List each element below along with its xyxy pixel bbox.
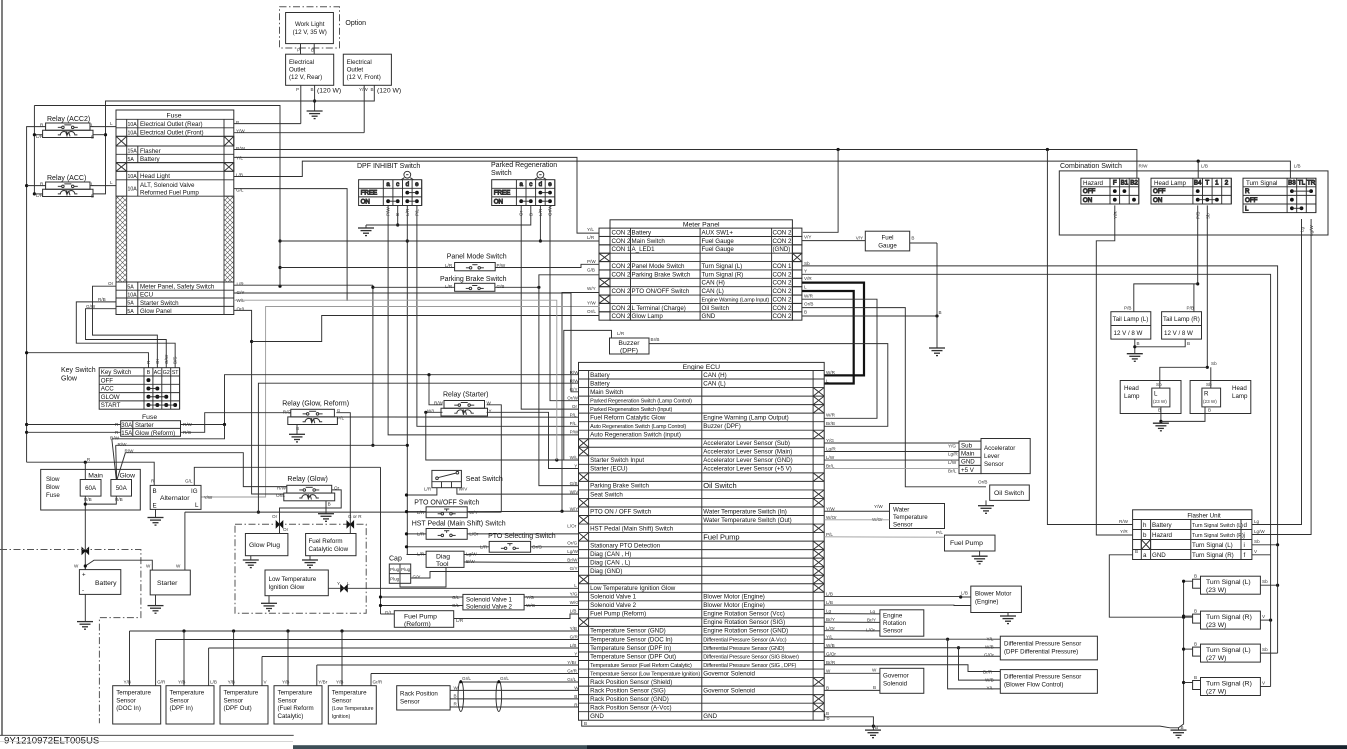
svg-text:Gr/L: Gr/L xyxy=(567,677,576,682)
engine ECU table xyxy=(579,362,825,720)
svg-text:OFF: OFF xyxy=(1153,188,1166,195)
svg-text:Y/L: Y/L xyxy=(826,634,833,639)
svg-text:G/B: G/B xyxy=(570,481,578,486)
svg-text:Fuse: Fuse xyxy=(46,492,60,499)
svg-text:Flasher Unit: Flasher Unit xyxy=(1187,512,1221,519)
svg-text:Sensor: Sensor xyxy=(400,699,420,706)
svg-text:Turn Signal (R): Turn Signal (R) xyxy=(1206,681,1252,688)
turn signal switch table xyxy=(1243,178,1316,212)
svg-text:L: L xyxy=(195,502,199,509)
G/W wire fuse to key G2 xyxy=(86,309,167,368)
svg-text:30A: 30A xyxy=(121,422,133,429)
svg-text:W/L: W/L xyxy=(570,455,579,460)
svg-text:Meter Panel: Meter Panel xyxy=(683,221,720,228)
svg-text:CAN (H): CAN (H) xyxy=(703,372,726,379)
svg-text:P/B: P/B xyxy=(1124,306,1131,311)
svg-text:(Low Temperature: (Low Temperature xyxy=(332,706,374,712)
svg-text:G2: G2 xyxy=(163,370,170,376)
svg-text:L: L xyxy=(1245,205,1249,212)
svg-text:Main: Main xyxy=(961,451,975,458)
svg-text:Engine Rotation Sensor (Vcc): Engine Rotation Sensor (Vcc) xyxy=(703,611,785,618)
svg-text:b: b xyxy=(1143,532,1147,539)
R wire to fuse 15A xyxy=(27,431,121,433)
svg-text:Relay (ACC): Relay (ACC) xyxy=(47,175,86,182)
G/L wire SV2 left xyxy=(381,605,463,607)
svg-text:Auto Regeneration Switch (Lamp: Auto Regeneration Switch (Lamp Control) xyxy=(590,424,686,430)
svg-text:Y: Y xyxy=(804,269,807,274)
svg-text:OFF: OFF xyxy=(101,377,114,384)
svg-text:(12 V, Front): (12 V, Front) xyxy=(347,74,381,81)
svg-text:Head Light: Head Light xyxy=(140,173,170,180)
HST left wire xyxy=(407,533,427,535)
W/L wire fuse starter switch xyxy=(234,300,557,460)
svg-text:Temperature: Temperature xyxy=(893,514,928,521)
svg-text:Glow: Glow xyxy=(120,473,136,480)
svg-text:5A: 5A xyxy=(127,285,134,291)
svg-text:B3: B3 xyxy=(1288,180,1296,187)
main 60A fuse xyxy=(80,480,101,497)
svg-text:CON 2: CON 2 xyxy=(612,229,631,236)
svg-text:i: i xyxy=(1244,542,1245,549)
fuel gauge B wire xyxy=(910,242,937,244)
svg-text:Lever: Lever xyxy=(984,453,999,460)
svg-text:(120 W): (120 W) xyxy=(377,88,401,95)
R/G wire to relay glow reform xyxy=(181,413,291,433)
ground fuel gauge B xyxy=(929,348,945,356)
B wire fuel gauge down xyxy=(936,243,938,348)
svg-text:15A: 15A xyxy=(128,149,138,155)
R/B wire 60A to battery xyxy=(84,496,86,569)
svg-text:10A: 10A xyxy=(128,174,138,180)
solenoid valve 1/2 box xyxy=(463,594,524,610)
svg-text:R/W: R/W xyxy=(1119,519,1129,524)
svg-text:Water Temperature Switch (Out): Water Temperature Switch (Out) xyxy=(703,517,791,524)
combination switch outer box xyxy=(1059,171,1328,235)
L/B drop to head lamp B4 xyxy=(1197,161,1199,178)
svg-text:R/W: R/W xyxy=(277,486,287,491)
oil switch ground wire xyxy=(985,500,987,505)
svg-text:Cap: Cap xyxy=(389,556,402,563)
svg-text:Relay (Starter): Relay (Starter) xyxy=(443,392,489,399)
svg-text:Sensor: Sensor xyxy=(278,697,298,704)
svg-text:Ignition): Ignition) xyxy=(332,714,351,720)
svg-text:Temperature: Temperature xyxy=(332,690,367,697)
svg-text:B: B xyxy=(1137,341,1140,346)
svg-text:Temperature: Temperature xyxy=(170,690,205,697)
svg-text:Blower Motor: Blower Motor xyxy=(975,591,1011,598)
B bus turn signals xyxy=(1179,581,1193,728)
PTO selecting left wire xyxy=(407,546,490,548)
svg-text:Lg/W: Lg/W xyxy=(1309,225,1314,236)
glow plug xyxy=(245,534,288,556)
svg-text:ON: ON xyxy=(1153,197,1162,204)
Y/W wire to water temp xyxy=(824,510,889,512)
svg-text:(GND): (GND) xyxy=(773,246,791,253)
svg-text:Plug: Plug xyxy=(390,577,400,582)
svg-text:Accelerator Lever Sensor (+5 V: Accelerator Lever Sensor (+5 V) xyxy=(703,466,792,473)
svg-text:CAN (L): CAN (L) xyxy=(703,380,725,387)
temperature sensor 4 xyxy=(274,686,322,724)
L/R line to meter main switch xyxy=(280,240,599,242)
svg-text:Lg/R: Lg/R xyxy=(826,447,836,452)
seat switch left wire xyxy=(407,488,437,495)
fusible link battery xyxy=(82,548,89,555)
bottom scan bar xyxy=(293,745,587,749)
Lg wire to flasher d xyxy=(1252,219,1302,525)
svg-text:Turn Signal Switch (L): Turn Signal Switch (L) xyxy=(1192,523,1243,529)
Gr/L shield wire xyxy=(461,681,579,683)
svg-text:(DPF Differential Pressure): (DPF Differential Pressure) xyxy=(1004,648,1078,655)
svg-text:Turn Signal (R): Turn Signal (R) xyxy=(1206,614,1252,621)
svg-text:Fuel: Fuel xyxy=(881,235,893,242)
B/W wire diag to ECU xyxy=(464,561,579,564)
turn signal lamp 3 xyxy=(1201,644,1261,662)
svg-text:R/W: R/W xyxy=(1139,164,1149,169)
svg-text:DPF INHIBIT Switch: DPF INHIBIT Switch xyxy=(357,163,420,170)
svg-text:(27 W): (27 W) xyxy=(1206,688,1226,695)
L wire lti glow to ECU xyxy=(328,587,578,589)
svg-text:G/L: G/L xyxy=(452,595,460,600)
svg-text:B/W: B/W xyxy=(466,559,475,564)
svg-text:(Blower Flow Control): (Blower Flow Control) xyxy=(1004,682,1063,689)
frc glow ground wire xyxy=(309,556,311,560)
svg-text:W/Y: W/Y xyxy=(469,510,478,515)
svg-text:CON 2: CON 2 xyxy=(773,313,792,320)
R/W fan2 to L/R bus xyxy=(116,444,407,446)
svg-text:PTO ON/OFF Switch: PTO ON/OFF Switch xyxy=(414,499,479,506)
temperature sensor 2 xyxy=(166,686,214,724)
ground DPF switches xyxy=(358,228,374,236)
svg-text:Lg: Lg xyxy=(826,609,832,614)
svg-text:L Terminal (Charge): L Terminal (Charge) xyxy=(632,305,686,312)
svg-text:Gr/R: Gr/R xyxy=(567,668,577,673)
relay starter xyxy=(441,401,488,417)
svg-text:Main Switch: Main Switch xyxy=(590,389,624,396)
svg-text:B: B xyxy=(1187,341,1190,346)
ground glow plug xyxy=(243,560,259,568)
svg-text:(27 W): (27 W) xyxy=(1206,655,1226,662)
G/L wire SV1 left xyxy=(381,596,463,598)
tail lamp L xyxy=(1111,312,1151,339)
svg-text:L/R: L/R xyxy=(587,235,595,240)
R/W drop to flasher unit xyxy=(1047,150,1132,525)
Sb wire head L xyxy=(1160,367,1208,388)
svg-text:TR: TR xyxy=(1307,180,1316,187)
Regen d wire xyxy=(539,205,541,241)
svg-text:Differential Pressure Sensor (: Differential Pressure Sensor (SIG , DPF) xyxy=(703,663,796,669)
W/B branch wire xyxy=(959,648,1001,680)
svg-text:Option: Option xyxy=(345,20,366,27)
svg-text:Fuel Pump (Reform): Fuel Pump (Reform) xyxy=(590,611,646,618)
svg-text:Key Switch: Key Switch xyxy=(61,367,96,374)
differential pressure sensor blower xyxy=(1000,670,1097,694)
svg-text:Y/Br: Y/Br xyxy=(318,680,327,685)
svg-text:Temperature Sensor (DPF Out): Temperature Sensor (DPF Out) xyxy=(590,653,676,660)
svg-text:L/B: L/B xyxy=(570,643,577,648)
Lg/W wire to flasher j xyxy=(1252,219,1311,535)
svg-text:Relay (Glow, Reform): Relay (Glow, Reform) xyxy=(282,400,349,407)
svg-text:15A: 15A xyxy=(121,430,133,437)
svg-text:W: W xyxy=(146,564,151,569)
svg-text:Temperature: Temperature xyxy=(278,690,313,697)
svg-text:FREE: FREE xyxy=(494,190,511,197)
svg-text:Glow (Reform): Glow (Reform) xyxy=(135,430,175,437)
water temperature sensor xyxy=(890,504,945,529)
glow 50A fuse xyxy=(111,480,132,497)
lti glow ground wire xyxy=(268,596,270,604)
svg-text:W: W xyxy=(74,564,79,569)
R/B wire to key ST xyxy=(76,302,175,368)
svg-text:Solenoid Valve 1: Solenoid Valve 1 xyxy=(466,597,513,604)
svg-text:Reformed Fuel Pump: Reformed Fuel Pump xyxy=(140,189,199,196)
G/Y wire fuse ECU row to ECU main switch xyxy=(234,293,579,392)
svg-text:Starter Switch Input: Starter Switch Input xyxy=(590,457,644,464)
svg-text:B: B xyxy=(1194,609,1197,614)
Y/L line fuse battery to meter xyxy=(234,157,600,233)
wire ACC R xyxy=(27,185,46,187)
svg-text:Hazard: Hazard xyxy=(1152,532,1173,539)
svg-text:a: a xyxy=(519,181,523,188)
Or/L wire to meter glow lamp xyxy=(252,316,600,342)
svg-text:Or: Or xyxy=(572,404,578,409)
svg-text:W: W xyxy=(176,564,181,569)
svg-text:Parked Regeneration: Parked Regeneration xyxy=(491,162,557,169)
svg-text:P: P xyxy=(296,87,299,92)
head lamp R assembly xyxy=(1190,381,1251,414)
svg-text:AUX SW1+: AUX SW1+ xyxy=(702,229,734,236)
wire outlet rear P to fuse xyxy=(300,85,302,123)
wire ACC L/R xyxy=(34,193,42,195)
svg-text:Main: Main xyxy=(88,473,103,480)
svg-text:L/Or: L/Or xyxy=(826,626,835,631)
svg-text:CAN (L): CAN (L) xyxy=(702,288,724,295)
svg-text:Y/R: Y/R xyxy=(1120,529,1128,534)
svg-text:Gauge: Gauge xyxy=(878,243,897,250)
svg-text:W/Or: W/Or xyxy=(826,515,837,520)
svg-text:5A: 5A xyxy=(128,157,135,163)
ground battery xyxy=(77,622,93,630)
svg-text:V/Y: V/Y xyxy=(856,236,863,241)
svg-text:Y/L: Y/L xyxy=(987,686,994,691)
svg-text:B: B xyxy=(873,685,876,690)
svg-text:ECU: ECU xyxy=(140,292,153,299)
svg-text:Turn Signal (L): Turn Signal (L) xyxy=(702,263,743,270)
svg-text:L: L xyxy=(804,285,807,290)
G/L wire alternator IG xyxy=(194,467,380,485)
tail lamp R B wire xyxy=(1135,339,1185,347)
wire worklight B xyxy=(313,44,315,55)
svg-text:Rack Position Sensor (A-Vcc): Rack Position Sensor (A-Vcc) xyxy=(590,705,672,712)
governor solenoid xyxy=(880,668,924,693)
fusible link frc glow xyxy=(347,521,354,528)
V wire lamp4 xyxy=(1260,686,1270,688)
svg-text:Lg/W: Lg/W xyxy=(466,552,477,557)
svg-text:Differential Pressure Sensor: Differential Pressure Sensor xyxy=(1004,674,1081,681)
svg-text:d: d xyxy=(539,181,543,188)
svg-text:Fuel Gauge: Fuel Gauge xyxy=(702,246,735,253)
svg-text:Battery: Battery xyxy=(95,580,117,587)
svg-text:Lamp: Lamp xyxy=(1232,393,1248,400)
svg-text:B: B xyxy=(826,685,829,690)
svg-text:Or/G: Or/G xyxy=(567,540,577,545)
fusible link lti glow xyxy=(341,585,348,592)
svg-text:Temperature: Temperature xyxy=(116,690,151,697)
svg-text:10A: 10A xyxy=(128,130,138,136)
svg-text:Governor: Governor xyxy=(883,673,909,680)
Sb wire head R xyxy=(1210,367,1212,388)
ground starter xyxy=(148,606,164,614)
svg-text:Rack Position: Rack Position xyxy=(400,691,438,698)
wire ACC2 L/R xyxy=(34,134,42,136)
W/Or wire to water temp xyxy=(824,519,889,521)
buzzer Br/B wire to ECU xyxy=(649,344,888,427)
svg-text:B: B xyxy=(574,694,577,699)
svg-text:(Engine): (Engine) xyxy=(975,599,998,606)
ground oil switch xyxy=(978,506,994,514)
Y/W wire alternator to meter xyxy=(201,307,599,498)
svg-text:(23 W): (23 W) xyxy=(1206,622,1226,629)
svg-text:L/R: L/R xyxy=(417,510,425,515)
svg-text:V/Y: V/Y xyxy=(804,235,811,240)
R/W wire starter fuse to ECU xyxy=(181,375,579,425)
svg-text:Turn Signal (L): Turn Signal (L) xyxy=(1206,579,1251,586)
Sb wire to head lamps xyxy=(1206,205,1208,367)
svg-text:B: B xyxy=(371,87,374,92)
W wire starter riser xyxy=(184,512,186,570)
Or wire fuse to key AC xyxy=(93,286,158,368)
svg-text:CON 2: CON 2 xyxy=(773,238,792,245)
svg-text:G/Y: G/Y xyxy=(413,575,421,580)
svg-text:B: B xyxy=(147,370,151,376)
key switch table xyxy=(99,368,179,410)
svg-text:+: + xyxy=(82,572,86,579)
W wire relay starter down xyxy=(487,405,502,512)
svg-text:P/B: P/B xyxy=(1187,306,1194,311)
svg-text:R/W: R/W xyxy=(236,146,246,151)
temperature sensor 1 xyxy=(113,686,161,724)
svg-text:R/W: R/W xyxy=(118,442,128,447)
tail lamp L B wire xyxy=(1134,339,1136,354)
svg-text:Accelerator Lever Sensor (Main: Accelerator Lever Sensor (Main) xyxy=(703,449,792,456)
wire ACC2 B xyxy=(93,134,106,136)
svg-text:(23 W): (23 W) xyxy=(1153,399,1167,404)
svg-text:Flasher: Flasher xyxy=(140,148,161,155)
svg-text:Parking Brake Switch: Parking Brake Switch xyxy=(590,483,649,490)
svg-text:G/L: G/L xyxy=(185,479,193,484)
svg-text:Battery: Battery xyxy=(590,380,611,387)
svg-text:Y/Br: Y/Br xyxy=(567,660,576,665)
junction B xyxy=(313,99,316,102)
svg-text:Engine ECU: Engine ECU xyxy=(683,364,720,371)
Or wire regen a to ECU xyxy=(521,205,578,409)
svg-text:Y/W: Y/W xyxy=(826,506,835,511)
svg-text:(DPF Out): (DPF Out) xyxy=(224,705,252,712)
head lamp R B wire xyxy=(1161,407,1205,422)
Y/R wire hazard to flasher xyxy=(1096,205,1132,535)
work light xyxy=(286,13,334,44)
svg-text:R/B: R/B xyxy=(98,297,106,302)
svg-text:A_LED1: A_LED1 xyxy=(632,246,656,253)
svg-text:Y/W: Y/W xyxy=(204,495,213,500)
ground fuel reform glow xyxy=(302,560,318,568)
svg-text:Sensor: Sensor xyxy=(332,697,352,704)
svg-text:L/B: L/B xyxy=(1294,164,1301,169)
svg-text:Electrical Outlet (Front): Electrical Outlet (Front) xyxy=(140,130,204,137)
fuel pump xyxy=(945,535,996,551)
svg-text:Sb: Sb xyxy=(1254,539,1260,544)
svg-text:G/B: G/B xyxy=(587,268,595,273)
svg-text:Parking Brake Switch: Parking Brake Switch xyxy=(632,271,691,278)
R/W fan1 to fuse line xyxy=(112,425,225,439)
svg-text:Br/B: Br/B xyxy=(651,337,660,342)
svg-text:B: B xyxy=(1208,408,1211,413)
svg-text:ST: ST xyxy=(172,370,179,376)
svg-text:Engine Rotation Sensor (GND): Engine Rotation Sensor (GND) xyxy=(703,628,788,635)
L/R wire to parking brake switch xyxy=(373,286,455,288)
svg-text:Electrical: Electrical xyxy=(347,59,372,66)
svg-text:Y/G: Y/G xyxy=(526,595,534,600)
Regen c wire to ground xyxy=(366,205,531,225)
svg-text:Turn Signal (L): Turn Signal (L) xyxy=(1192,542,1233,549)
svg-text:W/B: W/B xyxy=(826,643,835,648)
fuse table xyxy=(116,110,234,315)
svg-text:Turn Signal (R): Turn Signal (R) xyxy=(702,271,744,278)
svg-text:Temperature Sensor (GND): Temperature Sensor (GND) xyxy=(590,628,666,635)
svg-text:Or/L: Or/L xyxy=(587,309,596,314)
Or/L wire fuse to relay glow xyxy=(234,310,284,494)
svg-text:P/L: P/L xyxy=(826,532,833,537)
svg-text:W/Y: W/Y xyxy=(587,286,596,291)
svg-text:Fuel Reform Catalytic Glow: Fuel Reform Catalytic Glow xyxy=(590,414,666,421)
svg-text:Sb: Sb xyxy=(1262,579,1268,584)
svg-text:Solenoid: Solenoid xyxy=(883,681,908,688)
svg-text:CON 2: CON 2 xyxy=(773,229,792,236)
svg-text:P/B: P/B xyxy=(1196,212,1201,219)
svg-text:Sb: Sb xyxy=(804,261,810,266)
svg-text:P: P xyxy=(297,48,300,53)
svg-text:B: B xyxy=(584,721,587,726)
svg-text:L/B: L/B xyxy=(961,591,968,596)
svg-text:L/B: L/B xyxy=(826,592,833,597)
R/W riser to meter AUX SW1+ xyxy=(803,150,838,233)
svg-text:Solenoid Valve 2: Solenoid Valve 2 xyxy=(590,602,637,609)
svg-text:P/L: P/L xyxy=(936,530,943,535)
svg-text:Differential Pressure Sensor: Differential Pressure Sensor xyxy=(1004,640,1081,647)
svg-text:Battery: Battery xyxy=(1152,522,1173,529)
junction relay ACC2 B xyxy=(104,133,107,136)
svg-text:G/B: G/B xyxy=(497,284,505,289)
V riser xyxy=(1270,555,1272,687)
Y/G wire SV1 to ECU xyxy=(524,596,578,598)
L/R top feed line xyxy=(34,106,280,287)
svg-text:Sensor: Sensor xyxy=(116,697,136,704)
Sb wire flasher i xyxy=(1252,544,1278,546)
B wire meter GND xyxy=(802,315,937,317)
svg-text:Accelerator Lever Sensor (GND): Accelerator Lever Sensor (GND) xyxy=(703,457,792,464)
fuel gauge xyxy=(865,231,909,251)
svg-text:L: L xyxy=(110,180,113,185)
svg-text:CON 2: CON 2 xyxy=(773,305,792,312)
turn signal lamp 2 xyxy=(1201,611,1261,629)
svg-text:(23 W): (23 W) xyxy=(1206,587,1226,594)
svg-text:(DPF In): (DPF In) xyxy=(170,705,193,712)
svg-text:B: B xyxy=(1135,549,1138,554)
svg-text:d: d xyxy=(1244,522,1248,529)
svg-text:Ignition Glow: Ignition Glow xyxy=(269,584,305,591)
svg-text:Slow: Slow xyxy=(46,476,60,483)
svg-text:Catalytic Glow: Catalytic Glow xyxy=(309,546,349,553)
B wire ECU GND to ground xyxy=(825,714,874,730)
